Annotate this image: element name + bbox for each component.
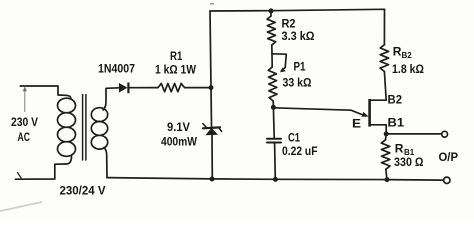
svg-text:3.3 kΩ: 3.3 kΩ <box>282 29 315 43</box>
svg-text:230 V: 230 V <box>11 115 38 129</box>
svg-text:400mW: 400mW <box>161 135 198 149</box>
svg-text:C1: C1 <box>288 130 300 144</box>
svg-text:R: R <box>395 141 404 155</box>
svg-text:9.1V: 9.1V <box>167 120 190 134</box>
svg-text:330 Ω: 330 Ω <box>394 155 424 169</box>
svg-text:B2: B2 <box>402 51 413 60</box>
svg-text:AC: AC <box>18 130 31 144</box>
svg-text:230/24 V: 230/24 V <box>60 184 106 198</box>
svg-text:E: E <box>352 117 361 131</box>
svg-text:P1: P1 <box>294 59 306 73</box>
svg-text:33 kΩ: 33 kΩ <box>283 76 312 90</box>
svg-text:1.8 kΩ: 1.8 kΩ <box>392 62 424 76</box>
svg-text:R1: R1 <box>170 49 183 63</box>
svg-text:1N4007: 1N4007 <box>98 62 135 76</box>
svg-text:0.22 uF: 0.22 uF <box>282 144 318 158</box>
svg-text:1 kΩ 1W: 1 kΩ 1W <box>155 63 197 77</box>
svg-text:B1: B1 <box>388 115 405 129</box>
svg-text:B2: B2 <box>388 92 403 106</box>
svg-text:R: R <box>393 45 402 59</box>
svg-text:O/P: O/P <box>439 150 459 164</box>
